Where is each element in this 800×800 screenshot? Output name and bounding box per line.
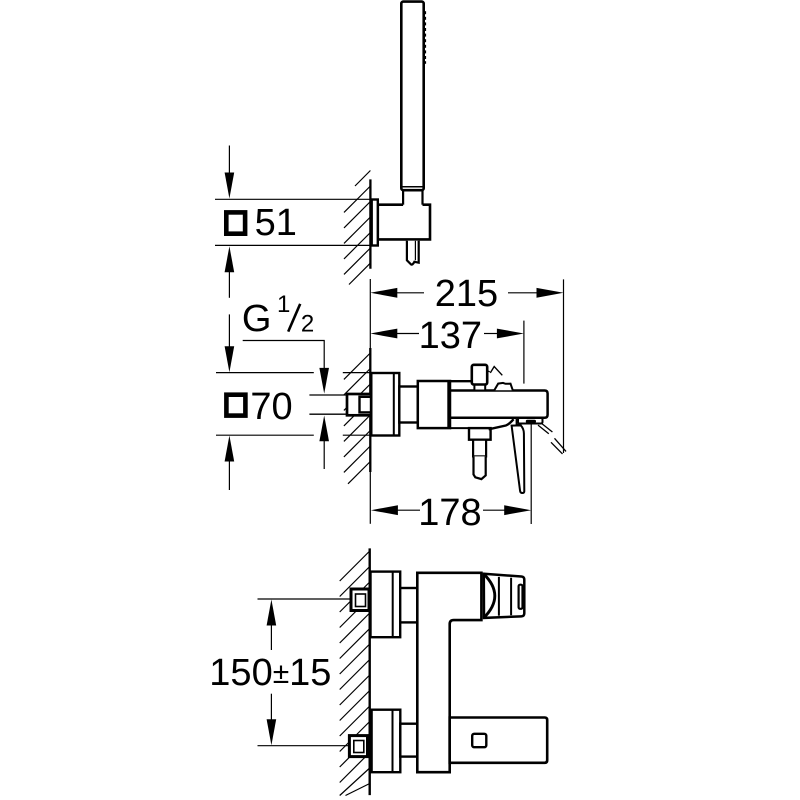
lever leg <box>512 425 525 493</box>
extension line 150 lower <box>258 745 352 747</box>
wall line (bottom view) <box>369 548 371 795</box>
extension lines 70 <box>216 373 371 436</box>
valve block <box>418 381 450 428</box>
spray nozzle dots <box>424 11 427 64</box>
G 1/2 leader line <box>243 341 329 394</box>
holder bracket body <box>378 205 430 240</box>
rear body bottom line <box>450 427 491 429</box>
top step under knob <box>450 380 472 382</box>
shower outlet upper block <box>469 428 491 440</box>
square symbol 51 <box>226 212 245 233</box>
lever top edge <box>489 419 514 429</box>
dimension 215 <box>370 288 563 298</box>
lever pivot hump <box>494 383 513 390</box>
wall line (top view) <box>369 179 371 268</box>
square symbol 70 <box>226 395 245 416</box>
dimension line 150 upper arrow <box>267 600 277 651</box>
G 1/2 lower arrow <box>319 416 329 470</box>
wall line + left extension line (215/137/178) <box>369 279 371 350</box>
svg-text:70: 70 <box>250 386 292 428</box>
dimension line 70 upper arrow <box>225 314 235 372</box>
extension line 150 upper <box>258 598 352 600</box>
right extension line 178 <box>530 423 532 524</box>
lever cap body <box>484 574 525 618</box>
svg-text:215: 215 <box>435 273 498 315</box>
hand shower stick <box>401 2 423 191</box>
extension line bottom (51) <box>215 244 370 246</box>
union nut thick outer <box>347 394 371 415</box>
handle lower section <box>403 190 422 207</box>
lower escutcheon <box>372 710 401 773</box>
holder wall flange <box>372 200 378 246</box>
svg-text:150±15: 150±15 <box>209 652 331 694</box>
dimension line 51 lower arrow <box>225 246 235 297</box>
main body (side view) <box>450 391 548 418</box>
mousseur <box>518 418 543 424</box>
union nut inner <box>360 397 372 413</box>
dimension line 150 lower arrow <box>267 694 277 746</box>
hose connector below bracket <box>407 241 419 265</box>
shower outlet lower tube <box>474 456 486 479</box>
svg-text:G: G <box>242 298 272 340</box>
upper S-union <box>400 588 417 622</box>
spout square hole <box>472 734 486 747</box>
lower connection nut <box>349 736 367 757</box>
wall hatching (middle view) <box>344 353 370 484</box>
right extension line 215 <box>563 279 565 453</box>
dimension line 51 upper arrow <box>225 146 235 199</box>
dimension 178 <box>371 505 531 515</box>
upper escutcheon <box>371 572 401 638</box>
lever cap ring lines <box>498 577 500 616</box>
svg-text:1: 1 <box>277 291 290 318</box>
handle ring lines <box>401 186 423 188</box>
diverter knob stem <box>474 385 485 391</box>
lower S-union <box>400 724 417 757</box>
svg-text:137: 137 <box>419 315 482 357</box>
S-union neck <box>399 387 418 423</box>
spout (front view) <box>450 718 548 763</box>
svg-text:178: 178 <box>418 492 481 534</box>
dimension 137 <box>370 329 524 339</box>
lever cap arc <box>484 574 495 618</box>
extension line top (51) <box>215 198 370 200</box>
svg-text:2: 2 <box>301 310 314 337</box>
svg-text:51: 51 <box>255 202 297 244</box>
lever raised position mark <box>487 371 490 372</box>
escutcheon (side view) <box>371 373 399 436</box>
lever cap slot <box>519 585 523 609</box>
wall hatching (top view) <box>344 171 370 285</box>
diverter knob <box>472 365 487 385</box>
lever neck <box>517 419 521 426</box>
water stream dashes <box>538 423 566 454</box>
supply pipe thin lines <box>309 394 348 396</box>
upper connection nut <box>351 589 369 611</box>
right extension line 137 <box>523 321 525 384</box>
dimension line 70 lower arrow <box>225 436 235 491</box>
shower outlet middle <box>473 440 486 457</box>
body vertical bar with upper arm <box>417 573 481 772</box>
wall hatching (bottom view) <box>340 551 370 796</box>
